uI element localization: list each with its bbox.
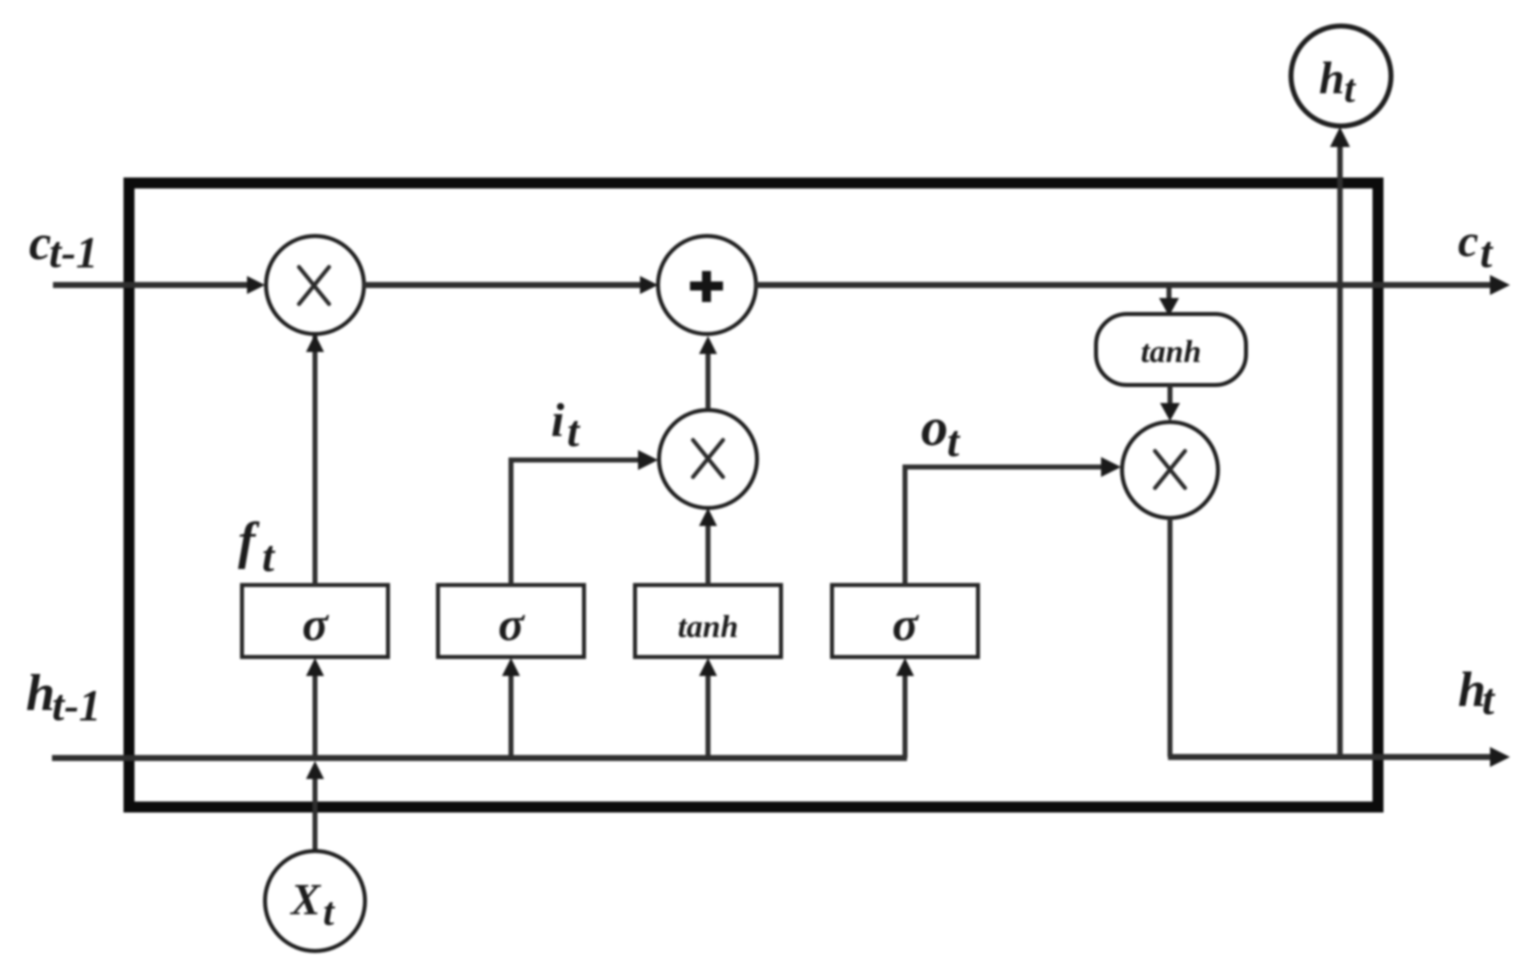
node multiply X3 (output gate product) (1122, 422, 1218, 518)
arrowhead into o gate (896, 658, 914, 676)
node multiply X2 (input gate product) (659, 410, 757, 508)
gate box sigma i (438, 585, 584, 657)
wire candidate gate to X2 (706, 524, 711, 585)
arrowhead h_t exit (1490, 747, 1510, 767)
node x_t input circle (265, 851, 365, 951)
arrowhead into f gate (306, 658, 324, 676)
arrowhead into X3 from o gate (1101, 457, 1121, 477)
svg-text:t: t (323, 889, 336, 934)
arrowhead into multiply X1 (247, 276, 265, 294)
wire f gate to X1 (313, 336, 318, 585)
X3 times symbol (1155, 451, 1185, 488)
arrowhead into plus from X2 (699, 336, 717, 354)
arrowhead into h_t circle (1330, 127, 1350, 147)
wire h output segment (1168, 754, 1494, 760)
wire branch down to tanh block (1167, 285, 1172, 300)
wire branch up to h_t circle (1337, 143, 1343, 757)
wire h-line branch to i gate (509, 674, 514, 758)
svg-text:σ: σ (302, 598, 329, 651)
arrowhead c_t exit (1490, 275, 1510, 295)
gate box sigma f (242, 585, 388, 657)
svg-text:h: h (26, 665, 55, 722)
arrowhead into candidate gate (699, 658, 717, 676)
node plus (cell state sum) (658, 236, 756, 334)
arrowhead into X2 from candidate gate (699, 508, 717, 526)
plus symbol (690, 271, 723, 302)
outer LSTM cell box (129, 183, 1378, 807)
wire c-line input segment (53, 282, 250, 288)
wire X2 up to plus (706, 352, 711, 409)
arrowhead into X2 from i gate (638, 450, 658, 470)
wire h-line input (52, 755, 907, 761)
svg-text:c: c (29, 214, 51, 270)
svg-text:c: c (1458, 215, 1478, 266)
wire o gate up and right to X3 (905, 467, 1108, 585)
wire i gate up and right to X2 (511, 460, 646, 585)
wire h-line branch to f gate (313, 674, 318, 758)
svg-text:t: t (947, 417, 961, 466)
node multiply X1 (forget gate product) (266, 236, 364, 334)
X1 times symbol (299, 267, 329, 304)
arrowhead into h-line from x_t (306, 761, 324, 779)
X2 times symbol (693, 440, 723, 477)
wire h-line turn up to o gate (903, 674, 908, 758)
svg-text:t: t (567, 407, 581, 456)
arrowhead into X1 from f gate (306, 334, 324, 352)
svg-text:X: X (289, 875, 322, 924)
svg-text:t: t (262, 532, 276, 581)
arrowhead into i gate (502, 658, 520, 676)
svg-text:t: t (1344, 66, 1357, 111)
arrowhead into tanh block (1159, 298, 1179, 316)
arrowhead into plus node (640, 276, 658, 294)
svg-text:t: t (1482, 675, 1496, 724)
svg-text:σ: σ (892, 598, 919, 651)
svg-text:t-1: t-1 (52, 681, 101, 730)
svg-text:tanh: tanh (678, 608, 738, 644)
svg-text:h: h (1319, 52, 1345, 103)
wire X1 to plus (363, 282, 642, 288)
svg-text:i: i (551, 394, 565, 447)
gate box tanh candidate (635, 585, 781, 657)
arrowhead into multiply X3 (1160, 403, 1180, 421)
wire X3 down to h-line (1168, 518, 1173, 757)
svg-text:tanh: tanh (1141, 333, 1201, 369)
svg-text:o: o (921, 397, 948, 457)
svg-text:σ: σ (498, 598, 525, 651)
tanh activation block (1096, 314, 1246, 385)
svg-text:t-1: t-1 (49, 228, 98, 277)
svg-text:t: t (1480, 228, 1494, 277)
wire h-line branch to candidate gate (706, 674, 711, 758)
wire c-line output segment (755, 282, 1494, 288)
wire x_t input up to h-line (313, 776, 318, 852)
node h_t output circle (1291, 26, 1391, 126)
gate box sigma o (832, 585, 978, 657)
wire tanh block to multiply X3 (1168, 385, 1173, 406)
